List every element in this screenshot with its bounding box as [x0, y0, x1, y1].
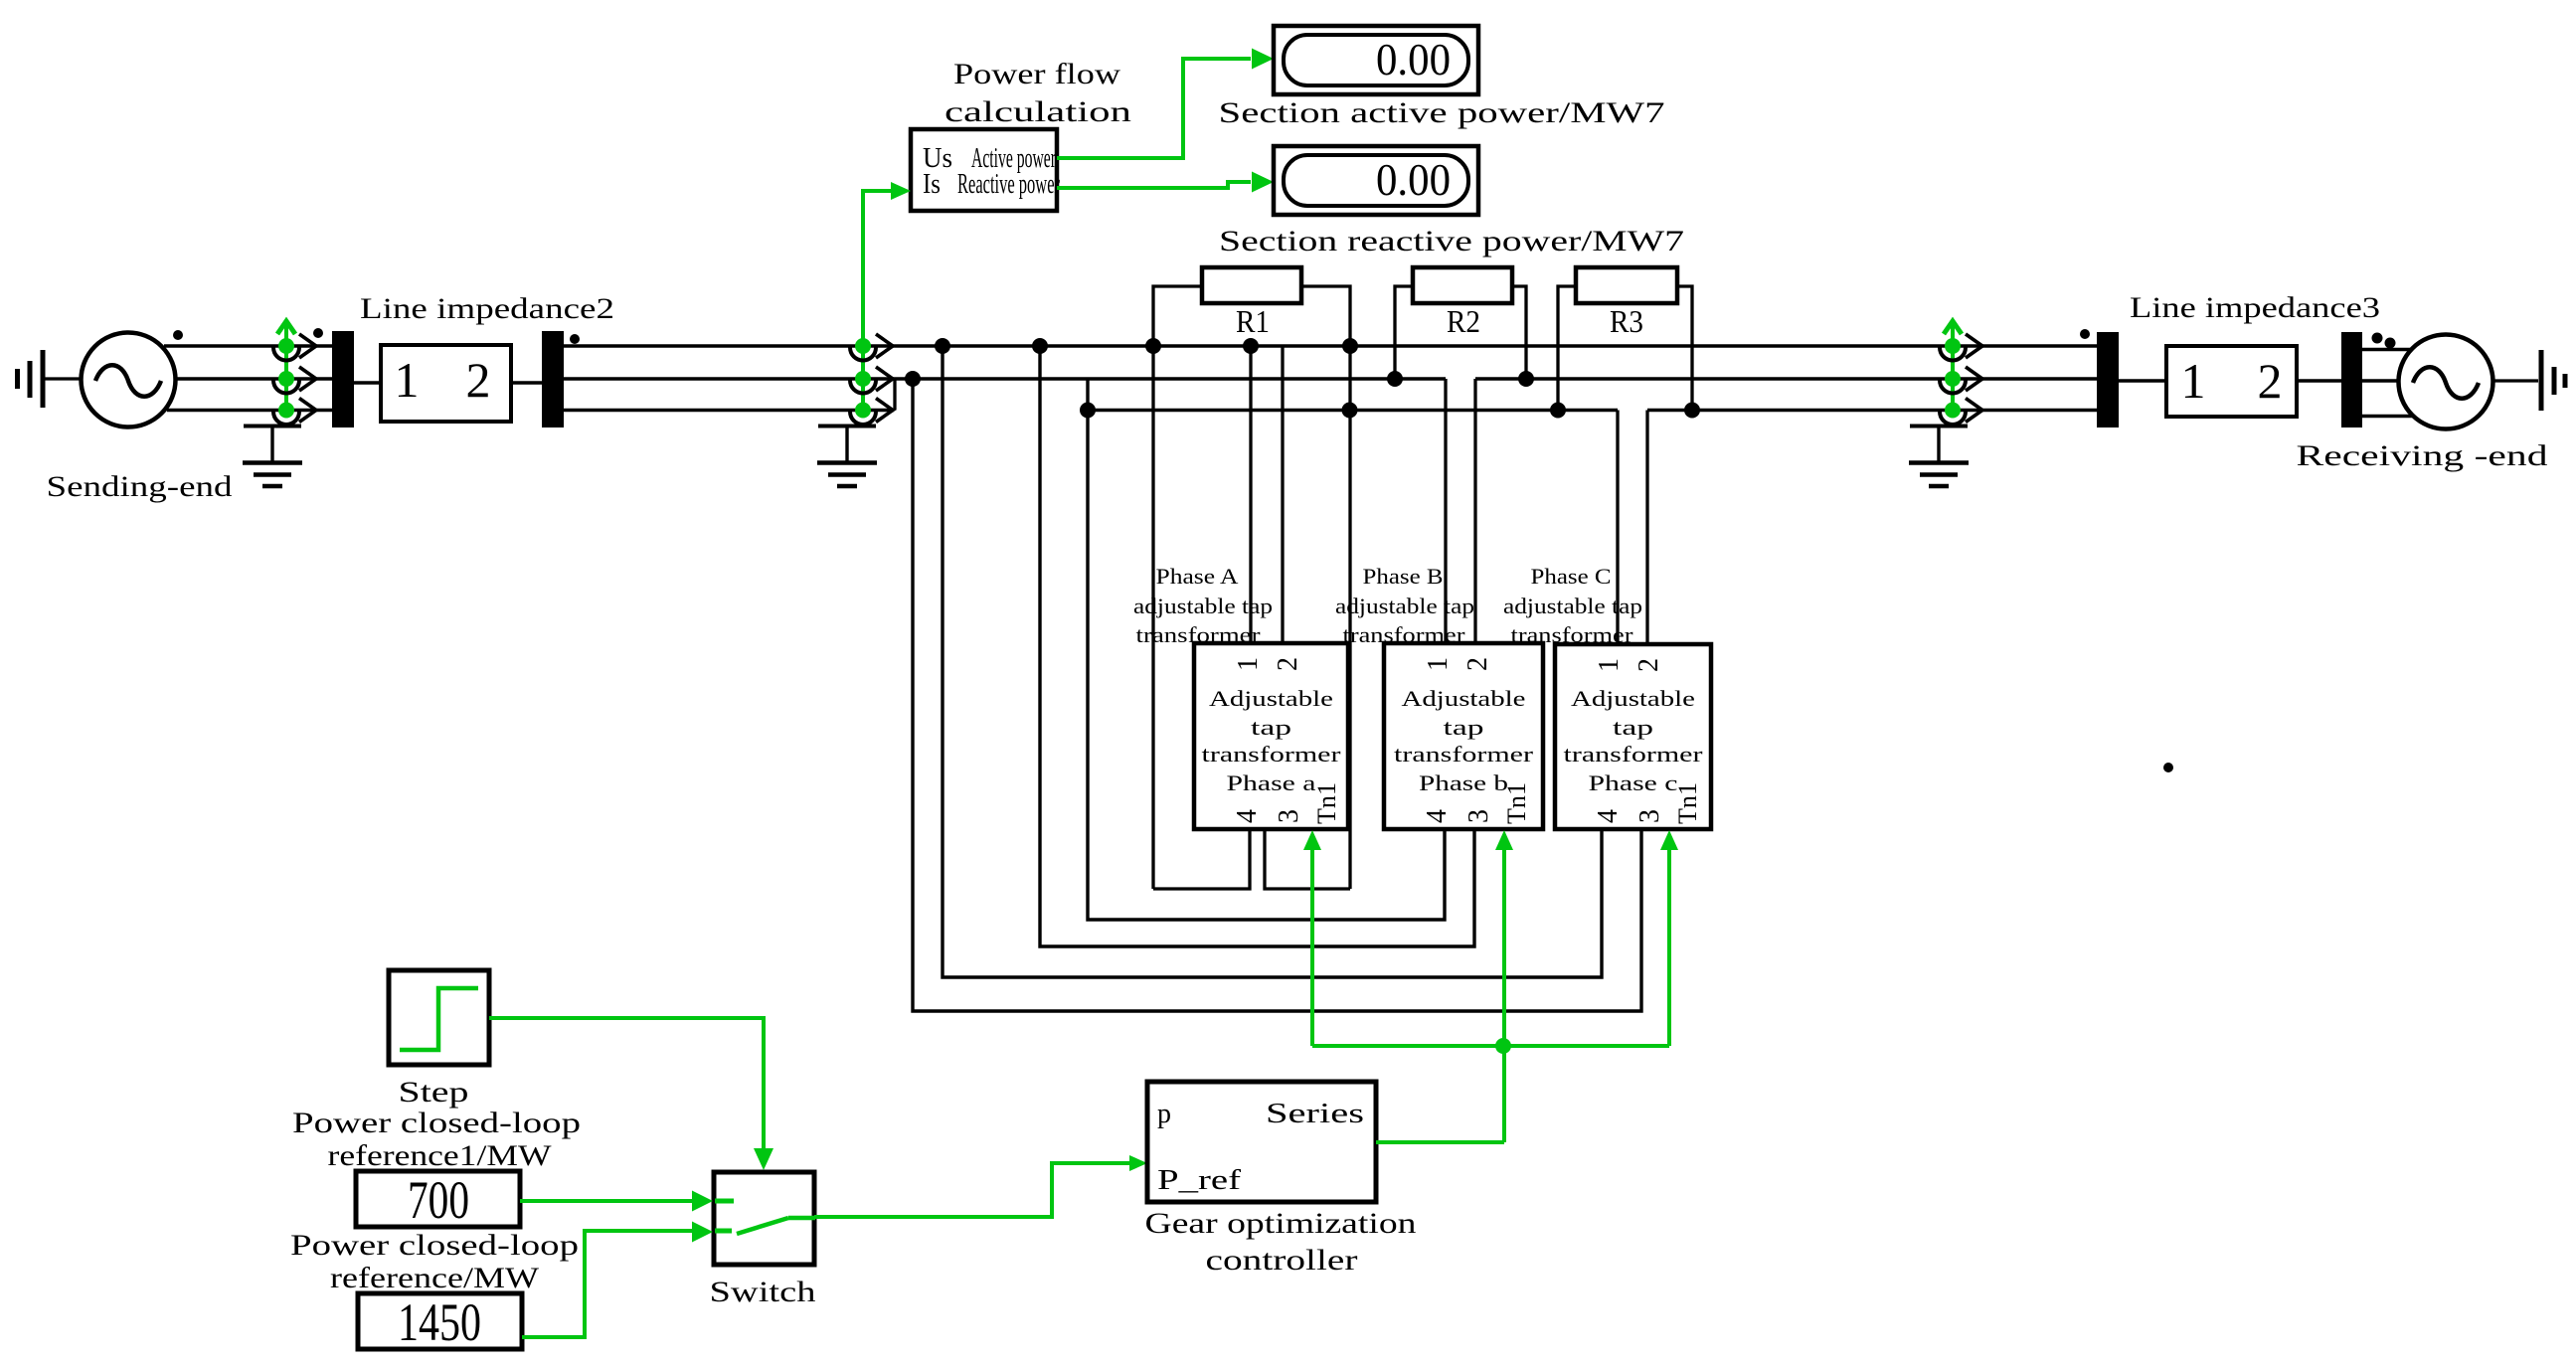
- svg-text:transformer: transformer: [1394, 742, 1534, 767]
- green signal wire Series output to control bus riser: [1376, 1140, 1504, 1144]
- wire R2 left lead down to line2 junction: [1395, 286, 1413, 379]
- port label 2 of Line impedance3: [2258, 353, 2283, 409]
- label Phase B adjustable tap transformer line2: [1335, 594, 1474, 618]
- svg-text:Adjustable: Adjustable: [1571, 686, 1695, 711]
- green arrowhead into Is input of U1: [891, 182, 911, 200]
- junction dot line1 x=1046: [1032, 338, 1048, 354]
- svg-text:P_ref: P_ref: [1157, 1165, 1242, 1196]
- green arrowhead into Display2: [1252, 172, 1274, 193]
- svg-text:Section active power/MW7: Section active power/MW7: [1219, 96, 1665, 129]
- svg-text:adjustable tap: adjustable tap: [1133, 594, 1273, 618]
- value 700: [408, 1170, 469, 1230]
- transformer TB name line 2: [1444, 715, 1484, 740]
- three-phase source V2 reference/neutral symbol: [2541, 350, 2565, 411]
- wire R1 right lead down to loop (through line1 junction): [1301, 286, 1350, 889]
- label Phase C adjustable tap transformer line1: [1531, 564, 1612, 589]
- transformer TB name line 4: [1419, 770, 1508, 795]
- svg-text:tap: tap: [1444, 715, 1484, 740]
- label Switch: [710, 1276, 816, 1308]
- step waveform glyph inside Step block: [400, 988, 478, 1050]
- green arrowhead into Display1: [1252, 49, 1274, 70]
- pin label Tn1 of transformer TC: [1673, 782, 1702, 824]
- svg-text:Reactive power: Reactive power: [957, 169, 1060, 200]
- transformer TA block body: [1194, 643, 1348, 829]
- svg-text:transformer: transformer: [1564, 742, 1704, 767]
- svg-text:R1: R1: [1236, 303, 1270, 339]
- wire transformer C pin2 riser to line3 restart: [1645, 411, 1648, 645]
- transformer TC name line 4: [1589, 770, 1678, 795]
- bus bar Bar1: [332, 331, 354, 427]
- junction dot line3 x=1702: [1684, 403, 1700, 419]
- pin label Tn1 of transformer TA: [1312, 782, 1341, 824]
- svg-text:Tn1: Tn1: [1502, 782, 1531, 824]
- block U1 Power flow calculation: [911, 129, 1057, 211]
- wire Bar3 to Line impedance3 port 1: [2119, 379, 2166, 382]
- switch lever glyph inside Switch: [715, 1201, 815, 1234]
- transformer TC name line 1: [1571, 686, 1695, 711]
- wire line3 phase-c bus from node J5 to transformer C pin1 corner: [1088, 409, 1618, 412]
- green signal wire measurement to Is input of U1: [863, 191, 893, 411]
- block Switch (manual switch): [714, 1172, 814, 1265]
- port label 1 of Line impedance2: [395, 352, 420, 408]
- phase marker dot after Bar2: [570, 334, 580, 344]
- svg-text:2: 2: [466, 352, 491, 408]
- Line impedance3 label: [2130, 291, 2380, 324]
- Section active power/MW7 label: [1219, 96, 1665, 129]
- svg-text:adjustable tap: adjustable tap: [1335, 594, 1474, 618]
- pin label Tn1 of transformer TB: [1502, 782, 1531, 824]
- port label 1 of Line impedance3: [2181, 353, 2206, 409]
- wire line1 phase-a bus from Bar2 to Bar3: [564, 344, 2097, 347]
- Section reactive power/MW7 label: [1219, 225, 1684, 257]
- wire loop L3 line1 to transformer C pin4: [943, 346, 1602, 977]
- wire transformer B pin2 riser to line2 restart: [1473, 379, 1476, 643]
- wire Bar1 to Line impedance2 port 1: [354, 381, 381, 384]
- wire phase-a Bar4 to source V2: [2362, 348, 2411, 351]
- pin number 4 of transformer TA: [1232, 809, 1263, 823]
- wire line2 phase-b bus from transformer B pin2 corner to Bar3: [1475, 377, 2097, 380]
- transformer TA name line 2: [1251, 715, 1291, 740]
- wire line3 phase-c bus from Bar2 to mid measurement cluster: [564, 409, 894, 412]
- wire Line impedance3 port 2 to Bar4: [2297, 379, 2341, 382]
- svg-text:0.00: 0.00: [1376, 34, 1451, 85]
- svg-text:Adjustable: Adjustable: [1402, 686, 1526, 711]
- svg-text:2: 2: [2258, 353, 2283, 409]
- svg-text:1: 1: [395, 352, 420, 408]
- transformer TB block body: [1384, 643, 1543, 829]
- pin number 1 of transformer TC: [1594, 658, 1625, 672]
- green control wire riser into transformer A Tn1: [1310, 847, 1314, 1046]
- Sending-end label: [47, 470, 233, 503]
- svg-text:tap: tap: [1613, 715, 1653, 740]
- AC source circle V2 Receiving-end: [2399, 335, 2493, 429]
- wire transformer C pin1 riser from line3 end: [1616, 411, 1619, 645]
- label Power closed-loop (reference1): [292, 1107, 581, 1139]
- bus bar Bar4: [2341, 332, 2362, 427]
- junction dot line2 x=918: [905, 371, 921, 387]
- Gear optimization controller label line 1: [1145, 1207, 1417, 1240]
- Power flow calculation title line 1: [953, 58, 1120, 90]
- svg-text:3: 3: [1274, 809, 1304, 823]
- resistor R2 body: [1413, 267, 1512, 303]
- green arrowhead into Switch input 1: [692, 1191, 713, 1212]
- green signal wire Switch output to P_ref input of controller: [814, 1163, 1133, 1217]
- label Phase C adjustable tap transformer line2: [1503, 594, 1642, 618]
- output label Reactive power of block U1: [957, 169, 1060, 200]
- wire Line impedance2 port 2 to Bar2: [511, 381, 542, 384]
- svg-text:2: 2: [1633, 658, 1664, 672]
- display Display2 inner rounded frame: [1284, 155, 1468, 206]
- wire phase-c source V1 to bus Bar1: [167, 409, 333, 412]
- svg-text:R2: R2: [1447, 303, 1480, 339]
- svg-text:0.00: 0.00: [1376, 154, 1451, 205]
- display Display1 value 0.00: [1376, 34, 1451, 85]
- green signal wire U1 Active power to Display1: [1057, 59, 1251, 158]
- svg-text:Section reactive power/MW7: Section reactive power/MW7: [1219, 225, 1684, 257]
- green arrowhead into transformer A Tn1: [1303, 830, 1321, 850]
- svg-text:Series: Series: [1266, 1099, 1364, 1129]
- output label p of controller: [1157, 1099, 1171, 1129]
- svg-text:Phase b: Phase b: [1419, 770, 1508, 795]
- block Gear optimization controller: [1147, 1082, 1376, 1202]
- wire phase-b Bar4 to source V2: [2362, 379, 2398, 382]
- wire loop bottom R1-right to transformer A pin3: [1265, 829, 1350, 889]
- three-phase source V1 Sending-end: reference/neutral symbol: [18, 350, 81, 408]
- transformer TC block body: [1555, 644, 1711, 829]
- junction dot line3 x=1357: [1342, 403, 1358, 419]
- wire R2 right lead down to line2 junction: [1512, 286, 1526, 379]
- block Line impedance3: [2166, 346, 2297, 417]
- input label Is of block U1: [923, 169, 941, 200]
- current/voltage measurement cluster at receiving bus (green probes): [1940, 321, 1982, 425]
- svg-text:1: 1: [2181, 353, 2206, 409]
- wire joining line2 and line3 at mid cluster: [893, 379, 896, 411]
- junction dot line1 x=1160: [1145, 338, 1161, 354]
- label Phase B adjustable tap transformer line1: [1363, 564, 1444, 589]
- label R3: [1610, 303, 1643, 339]
- label reference1/MW: [328, 1139, 553, 1172]
- green signal wire U1 Reactive power to Display2: [1057, 182, 1251, 188]
- svg-text:Step: Step: [399, 1076, 469, 1109]
- transformer TC name line 3: [1564, 742, 1704, 767]
- svg-text:reference/MW: reference/MW: [330, 1262, 540, 1294]
- green arrowhead into P_ref input: [1129, 1155, 1147, 1171]
- pin number 1 of transformer TA: [1233, 657, 1264, 671]
- bus bar Bar2: [542, 331, 564, 427]
- port label 2 of Line impedance2: [466, 352, 491, 408]
- svg-text:3: 3: [1634, 809, 1665, 823]
- junction dot line2 x=1535: [1518, 371, 1534, 387]
- pin number 4 of transformer TB: [1422, 809, 1453, 823]
- svg-text:transformer: transformer: [1202, 742, 1342, 767]
- svg-text:Power closed-loop: Power closed-loop: [292, 1107, 581, 1139]
- wire transformer A pin1 riser to line1: [1249, 346, 1252, 643]
- display Display2 Section reactive power outer box: [1274, 146, 1478, 215]
- transformer TA name line 4: [1227, 770, 1316, 795]
- label Phase C adjustable tap transformer line3: [1511, 622, 1634, 647]
- label Phase A adjustable tap transformer line2: [1133, 594, 1273, 618]
- svg-text:3: 3: [1463, 809, 1494, 823]
- svg-text:reference1/MW: reference1/MW: [328, 1139, 553, 1172]
- svg-text:calculation: calculation: [945, 95, 1131, 128]
- ground symbol at sending measurement point: [243, 426, 302, 486]
- junction dot line1 x=1358: [1342, 338, 1358, 354]
- resistor R3 body: [1576, 267, 1677, 303]
- wire line3 phase-c bus from transformer C pin2 corner to Bar3: [1647, 409, 2097, 412]
- block Step source: [389, 970, 489, 1065]
- value 1450: [398, 1292, 481, 1352]
- svg-text:1: 1: [1423, 657, 1454, 671]
- svg-text:Receiving -end: Receiving -end: [2297, 439, 2548, 472]
- label Step: [399, 1076, 469, 1109]
- phase marker dot before Bar3: [2080, 329, 2090, 339]
- label Phase A adjustable tap transformer line1: [1156, 564, 1239, 589]
- display Display1 inner rounded frame: [1284, 35, 1468, 85]
- transformer TA name line 1: [1209, 686, 1333, 711]
- green control wire riser into transformer B Tn1 from Series output: [1502, 847, 1506, 1142]
- sine wave inside source V1: [95, 365, 161, 397]
- label Phase A adjustable tap transformer line3: [1136, 622, 1262, 647]
- pin number 2 of transformer TB: [1462, 657, 1493, 671]
- input label P_ref of controller: [1157, 1165, 1242, 1196]
- svg-text:Sending-end: Sending-end: [47, 470, 233, 503]
- svg-text:p: p: [1157, 1099, 1171, 1129]
- junction dot line1 x=948: [935, 338, 950, 354]
- svg-text:Line impedance3: Line impedance3: [2130, 291, 2380, 324]
- pin number 2 of transformer TC: [1633, 658, 1664, 672]
- svg-text:1: 1: [1233, 657, 1264, 671]
- constant block K1 value 700: [356, 1171, 520, 1227]
- green arrowhead into Switch input 2: [692, 1222, 713, 1243]
- svg-text:Line impedance2: Line impedance2: [360, 292, 614, 325]
- wire R3 right lead down to line3 junction: [1677, 286, 1692, 411]
- transformer TB name line 1: [1402, 686, 1526, 711]
- svg-text:Tn1: Tn1: [1312, 782, 1341, 824]
- Gear optimization controller label line 2: [1206, 1244, 1358, 1277]
- svg-text:Tn1: Tn1: [1673, 782, 1702, 824]
- Power flow calculation title line 2: [945, 95, 1131, 128]
- svg-text:Is: Is: [923, 169, 941, 200]
- transformer TA name line 3: [1202, 742, 1342, 767]
- svg-text:Power closed-loop: Power closed-loop: [290, 1229, 579, 1262]
- phase marker dot at source V1 output: [173, 330, 183, 340]
- svg-text:Phase C: Phase C: [1531, 564, 1612, 589]
- label Phase B adjustable tap transformer line3: [1343, 622, 1466, 647]
- svg-text:Phase B: Phase B: [1363, 564, 1444, 589]
- AC source circle V1: [82, 333, 176, 427]
- svg-text:4: 4: [1232, 809, 1263, 823]
- green signal wire Step output to Switch top input: [489, 1018, 764, 1150]
- green signal wire 700 to Switch input 1: [520, 1199, 696, 1203]
- svg-text:4: 4: [1593, 809, 1624, 823]
- current/voltage measurement cluster at sending bus (green probes): [273, 321, 316, 425]
- svg-text:tap: tap: [1251, 715, 1291, 740]
- Receiving -end label: [2297, 439, 2548, 472]
- pin number 3 of transformer TC: [1634, 809, 1665, 823]
- svg-text:4: 4: [1422, 809, 1453, 823]
- label R2: [1447, 303, 1480, 339]
- wire transformer A pin2 riser to line1: [1281, 346, 1284, 643]
- transformer TB name line 3: [1394, 742, 1534, 767]
- svg-text:Power flow: Power flow: [953, 58, 1120, 90]
- constant block K2 value 1450: [358, 1293, 522, 1349]
- pin number 3 of transformer TB: [1463, 809, 1494, 823]
- display Display1 Section active power outer box: [1274, 26, 1478, 94]
- wire phase-a source V1 to bus Bar1: [164, 344, 333, 347]
- green arrowhead into transformer B Tn1: [1495, 830, 1513, 850]
- svg-text:1450: 1450: [398, 1292, 481, 1352]
- svg-text:2: 2: [1273, 657, 1303, 671]
- phase marker dots at receiving source: [2372, 333, 2396, 349]
- green arrowhead into Switch top: [754, 1148, 773, 1170]
- block Line impedance2: [381, 345, 511, 422]
- junction dot line3 x=1567: [1550, 403, 1566, 419]
- junction dot line2 x=1403: [1387, 371, 1403, 387]
- svg-text:adjustable tap: adjustable tap: [1503, 594, 1642, 618]
- wire loop L4 line2 to transformer C pin3: [913, 379, 1641, 1011]
- wire transformer B pin1 riser from line2 end: [1444, 379, 1447, 643]
- svg-text:controller: controller: [1206, 1244, 1358, 1277]
- output label Active power of block U1: [971, 143, 1056, 174]
- transformer TC name line 2: [1613, 715, 1653, 740]
- green signal wire 1450 to Switch input 2: [522, 1231, 696, 1337]
- wire R1 left lead down to loop (through line1 junction): [1153, 286, 1202, 889]
- bus bar Bar3: [2097, 332, 2119, 427]
- green junction dot on control bus: [1495, 1038, 1511, 1054]
- wire phase-b source V1 to bus Bar1: [176, 377, 333, 380]
- wire loop bottom R1-left to transformer A pin4: [1153, 829, 1250, 889]
- green arrowhead into transformer C Tn1: [1660, 830, 1678, 850]
- output label Series of controller: [1266, 1099, 1364, 1129]
- pin number 3 of transformer TA: [1274, 809, 1304, 823]
- wire loop L1 line2 tap down to transformer B pin4: [1088, 379, 1445, 920]
- label R1: [1236, 303, 1270, 339]
- label reference/MW: [330, 1262, 540, 1294]
- svg-text:Adjustable: Adjustable: [1209, 686, 1333, 711]
- pin number 2 of transformer TA: [1273, 657, 1303, 671]
- svg-text:Phase A: Phase A: [1156, 564, 1239, 589]
- green control bus horizontal wire: [1312, 1044, 1669, 1048]
- input label Us of block U1: [923, 143, 952, 174]
- svg-text:R3: R3: [1610, 303, 1643, 339]
- display Display2 value 0.00: [1376, 154, 1451, 205]
- ground symbol at mid measurement point: [817, 426, 877, 486]
- svg-text:1: 1: [1594, 658, 1625, 672]
- wire source V2 to reference symbol: [2493, 379, 2538, 382]
- wire loop L2 line1 to transformer B pin3: [1040, 346, 1474, 946]
- wire R3 left lead down to line3 junction: [1558, 286, 1576, 411]
- svg-text:700: 700: [408, 1170, 469, 1230]
- mid measurement cluster at section point (green probes): [850, 334, 893, 425]
- resistor R1 body: [1202, 267, 1301, 303]
- svg-text:Gear optimization: Gear optimization: [1145, 1207, 1417, 1240]
- label Power closed-loop (reference): [290, 1229, 579, 1262]
- Line impedance2 label: [360, 292, 614, 325]
- svg-text:Phase a: Phase a: [1227, 770, 1316, 795]
- phase marker dot before Bar1: [313, 328, 323, 338]
- junction dot line1 x=1258: [1243, 338, 1259, 354]
- pin number 4 of transformer TC: [1593, 809, 1624, 823]
- wire line2 phase-b bus from Bar2 to transformer B pin1 corner: [564, 377, 1446, 380]
- ground symbol at receiving measurement point: [1909, 426, 1969, 486]
- svg-text:Phase c: Phase c: [1589, 770, 1678, 795]
- pin number 1 of transformer TB: [1423, 657, 1454, 671]
- junction dot line3 x=1094 (node J5): [1080, 403, 1096, 419]
- svg-text:2: 2: [1462, 657, 1493, 671]
- green control wire riser into transformer C Tn1: [1667, 847, 1671, 1046]
- wire phase-c Bar4 to source V2: [2362, 415, 2413, 418]
- stray junction dot artifact: [2163, 763, 2173, 772]
- sine wave inside source V2: [2413, 367, 2479, 399]
- svg-text:Switch: Switch: [710, 1276, 816, 1308]
